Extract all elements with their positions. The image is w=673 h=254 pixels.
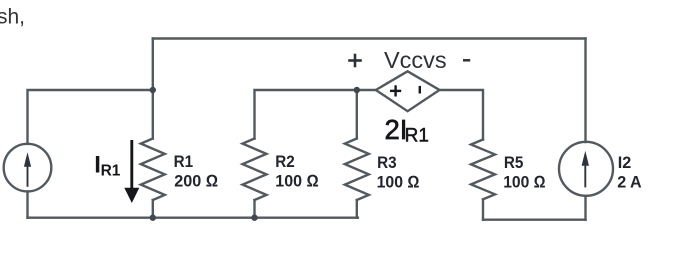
wire: R2 top lead and link to node B: [255, 90, 357, 139]
current source I2 circle: [559, 142, 613, 196]
svg-text:Vccvs: Vccvs: [384, 47, 447, 73]
wire bottom rail right: [483, 218, 586, 220]
svg-text:sh,: sh,: [0, 5, 25, 28]
resistor R3: [345, 139, 369, 201]
dependent source U1 VCCVS diamond: [376, 71, 440, 111]
wire: node B to VCCVS left tip: [357, 89, 376, 91]
plus mark inside diamond: [390, 85, 401, 96]
junction node A (R1 top): [150, 87, 156, 93]
wire: R1 bottom lead: [152, 200, 154, 218]
resistor R1: [141, 139, 165, 201]
I2 arrow (inside right source): [582, 151, 589, 188]
wire top rail (node top): [153, 37, 586, 39]
VCCVS plus polarity mark (above diamond): [348, 54, 362, 68]
current source I1 circle: [4, 144, 52, 192]
svg-text:R5: R5: [504, 153, 524, 172]
svg-text:100 Ω: 100 Ω: [275, 172, 319, 191]
wire: R2 bottom lead: [253, 200, 255, 218]
minus tick inside diamond: [419, 86, 421, 94]
junction R2 bottom: [251, 215, 257, 221]
wire: I2 bottom lead: [584, 196, 586, 220]
svg-text:100 Ω: 100 Ω: [377, 172, 420, 191]
resistor R5: [471, 140, 495, 200]
wire: R5 bottom lead: [482, 199, 484, 219]
VCCVS minus polarity mark (above diamond): [463, 59, 470, 62]
IR1 current arrow (thick, beside R1): [124, 140, 139, 203]
wire: node B to R3: [356, 90, 358, 139]
resistor R2: [243, 139, 267, 201]
wire left vertical: top rail through node A to R1: [152, 39, 154, 139]
wire: I1 bottom to bottom rail: [26, 191, 28, 217]
svg-text:R1: R1: [174, 152, 194, 171]
junction R1 bottom: [150, 215, 156, 221]
wire: VCCVS right tip to R5: [440, 90, 484, 140]
svg-text:R2: R2: [275, 152, 295, 171]
svg-text:R3: R3: [377, 153, 397, 172]
wire: R3 bottom lead: [356, 200, 358, 218]
wire bottom rail left: [28, 216, 358, 218]
wire right vertical: top rail to I2: [584, 39, 586, 143]
svg-text:R1: R1: [405, 125, 429, 146]
wire: I1 top to node A: [28, 90, 153, 144]
svg-text:200 Ω: 200 Ω: [174, 172, 218, 191]
I1 arrow (inside left source): [24, 152, 31, 187]
svg-text:100 Ω: 100 Ω: [503, 172, 546, 191]
junction node B (R3 top): [354, 87, 360, 93]
svg-text:2 A: 2 A: [617, 172, 642, 191]
svg-text:R1: R1: [101, 162, 121, 179]
svg-text:I2: I2: [618, 153, 632, 172]
